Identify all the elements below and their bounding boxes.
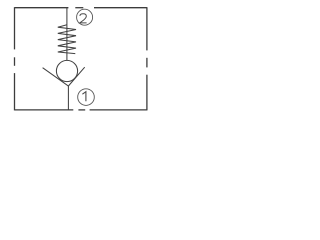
boundary top edge (chain line) [15, 7, 147, 9]
check valve poppet circle [56, 60, 77, 81]
wire port2 to poppet (center vertical) [66, 8, 68, 61]
port label 2 digit [80, 14, 87, 23]
boundary bottom edge (chain line) [15, 109, 147, 111]
port label 1 digit [82, 92, 86, 102]
stem wire to port 1 [67, 86, 69, 110]
boundary left edge (chain line) [14, 7, 16, 110]
port label 1 circle [78, 89, 95, 106]
check valve seat V [43, 67, 85, 86]
spring [58, 25, 76, 54]
port label 2 circle [77, 9, 93, 25]
boundary right edge (chain line) [146, 7, 148, 110]
